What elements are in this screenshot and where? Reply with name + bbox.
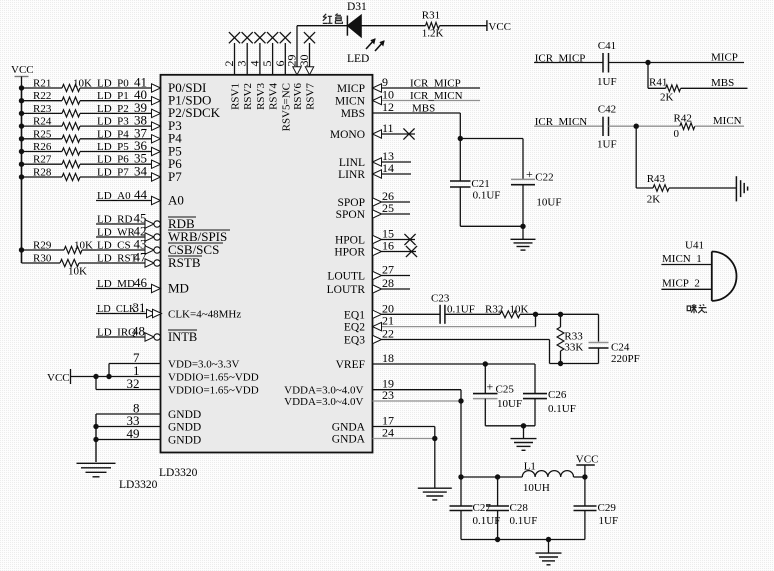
svg-text:ICR_MICN: ICR_MICN <box>410 90 463 102</box>
node junction C21 top <box>458 136 463 141</box>
wire RSV pin 5 <box>272 43 274 75</box>
node junction EQ1-R33 top <box>558 312 563 317</box>
svg-text:EQ2: EQ2 <box>344 322 365 334</box>
label LED <box>347 53 369 65</box>
svg-text:21: 21 <box>382 314 394 328</box>
resistor R25 10K <box>33 128 80 142</box>
pin 45 arrow and active-low bubble <box>145 220 160 228</box>
svg-text:SPON: SPON <box>336 209 366 221</box>
svg-text:LD_CS: LD_CS <box>97 240 131 252</box>
wire LD_WR to chip <box>96 236 145 238</box>
svg-text:28: 28 <box>382 276 394 290</box>
svg-text:C27: C27 <box>473 502 492 514</box>
pin 17 number <box>382 414 394 428</box>
pin 41 input arrow <box>152 84 161 92</box>
svg-text:10K: 10K <box>73 78 92 90</box>
node junction rail-C27 <box>458 474 463 479</box>
svg-text:C24: C24 <box>611 342 630 354</box>
pin 35 number <box>134 151 147 166</box>
power VCC port (top left) <box>11 64 34 88</box>
pin 44 input arrow <box>152 196 161 204</box>
svg-text:VCC: VCC <box>47 372 70 384</box>
svg-text:RSV7: RSV7 <box>305 83 317 110</box>
svg-text:46: 46 <box>134 275 148 290</box>
pin 34 input arrow <box>152 173 161 181</box>
capacitor C23 0.1UF <box>431 293 475 324</box>
capacitor C21 0.1UF <box>450 178 500 202</box>
wire C25 upper lead <box>484 364 486 394</box>
svg-text:+: + <box>487 380 494 394</box>
svg-text:MD: MD <box>168 280 189 295</box>
pin 28 output arrow <box>373 285 382 293</box>
wire R31 to VCC <box>440 25 487 27</box>
ground symbol below C25 C26 <box>511 439 537 451</box>
pin 29 number (rotated) <box>285 55 299 67</box>
svg-text:LD_P1: LD_P1 <box>97 90 129 102</box>
svg-text:U41: U41 <box>685 239 704 251</box>
net label LD_MD <box>97 278 135 290</box>
pin 21 EQ2 wire <box>382 314 536 326</box>
svg-text:VDDIO=1.65~VDD: VDDIO=1.65~VDD <box>168 385 259 397</box>
svg-text:LD_P7: LD_P7 <box>97 167 129 179</box>
wire RSV pin 4 <box>259 43 261 75</box>
node junction R25 at bus <box>19 136 24 141</box>
wire L1 to VCC node <box>574 476 585 478</box>
wire filter bottom rail <box>461 539 585 541</box>
node junction R27 at bus <box>19 162 24 167</box>
pin 46 input arrow <box>152 284 161 292</box>
svg-text:49: 49 <box>127 426 140 441</box>
svg-text:34: 34 <box>134 164 148 179</box>
wire LD_MD to chip pin 46 <box>96 288 152 290</box>
svg-text:L1: L1 <box>524 461 536 473</box>
capacitor C41 1UF <box>597 40 617 88</box>
svg-text:RSV3: RSV3 <box>255 83 267 110</box>
pin 22 output arrow <box>373 335 382 343</box>
ground symbol rotated (right) <box>736 176 747 201</box>
svg-text:10K: 10K <box>68 266 87 278</box>
wire LD_RST to chip <box>96 262 145 264</box>
net label LD_P0 <box>97 78 129 90</box>
pin 39 number <box>134 100 147 115</box>
wire RSV pin 3 <box>246 43 248 75</box>
svg-text:R32: R32 <box>485 304 503 316</box>
svg-text:VDD=3.0~3.3V: VDD=3.0~3.3V <box>168 359 239 371</box>
resistor R41 2K <box>648 77 681 104</box>
pin 6 number (rotated) <box>273 61 287 67</box>
resistor R26 10K <box>33 141 80 155</box>
capacitor C22 10UF (electrolytic) <box>511 167 561 209</box>
pin 29 top arrow <box>293 67 301 75</box>
wire branch up to pin 7 <box>109 364 161 377</box>
node junction R28 at bus <box>19 174 24 179</box>
pin 26 output arrow <box>373 198 382 206</box>
pin 30 number (rotated) <box>297 55 311 67</box>
wire R21 to chip pin 41 <box>80 87 152 89</box>
wire MICP to mic pin 2 <box>661 288 711 290</box>
pin 25 output arrow <box>373 210 382 218</box>
svg-text:LD_RD: LD_RD <box>97 214 133 226</box>
svg-text:C41: C41 <box>598 40 616 52</box>
pin 43 number <box>134 237 147 252</box>
svg-text:GNDD: GNDD <box>168 422 201 434</box>
node junction bottom-ground <box>546 537 551 542</box>
svg-text:10UF: 10UF <box>497 398 522 410</box>
svg-text:RSV1: RSV1 <box>230 83 242 110</box>
chip right pin names <box>284 83 366 446</box>
pin 34 number <box>134 164 148 179</box>
svg-text:VCC: VCC <box>576 454 599 466</box>
svg-text:R27: R27 <box>33 154 52 166</box>
node junction GNDA <box>432 436 437 441</box>
svg-text:LD_P4: LD_P4 <box>97 128 129 140</box>
svg-text:12: 12 <box>382 100 394 114</box>
node junction R22 at bus <box>19 98 24 103</box>
pin 35 input arrow <box>152 160 161 168</box>
pin 37 number <box>134 125 148 140</box>
svg-text:R22: R22 <box>33 90 51 102</box>
net label LD_RD <box>97 214 133 226</box>
pin 23 number <box>382 388 394 402</box>
no-connect X pin 30 <box>304 32 315 43</box>
resistor R43 2K <box>636 173 669 205</box>
svg-text:LD_IRQ: LD_IRQ <box>97 327 136 339</box>
node junction R26 at bus <box>19 149 24 154</box>
wire R32 to EQ1 node <box>520 313 599 315</box>
no-connect X pin 6 <box>280 32 291 43</box>
resistor R21 10K <box>33 78 80 92</box>
wire R26 to chip pin 36 <box>80 151 152 153</box>
wire R22 to chip pin 40 <box>80 100 152 102</box>
svg-text:P7: P7 <box>168 169 182 184</box>
svg-text:C26: C26 <box>548 389 567 401</box>
capacitor C24 220PF <box>589 314 640 365</box>
svg-text:31: 31 <box>133 300 146 315</box>
pin 36 number <box>134 138 148 153</box>
wire R24 to chip pin 38 <box>80 125 152 127</box>
no-connect X pin 11 <box>403 128 414 139</box>
pin 10 number <box>382 88 394 102</box>
svg-text:GNDD: GNDD <box>168 409 201 421</box>
svg-text:MICP 2: MICP 2 <box>662 278 700 290</box>
pin 21 input arrow <box>373 322 382 330</box>
net label MICN pin 1 <box>662 253 702 265</box>
wire bus to R22 <box>22 100 63 102</box>
pin 14 number <box>382 161 394 175</box>
wire filter top rail left <box>461 476 522 478</box>
svg-text:MONO: MONO <box>330 129 365 141</box>
pin 16 number <box>382 239 394 253</box>
svg-text:+: + <box>526 167 533 181</box>
svg-text:R24: R24 <box>33 116 52 128</box>
wire VCC bus vertical <box>21 88 23 263</box>
pin 45 number <box>134 211 147 226</box>
svg-text:MBS: MBS <box>341 108 365 120</box>
no-connect X pin 2 <box>229 32 240 43</box>
ground symbol filter <box>536 553 562 565</box>
pin 10 MICN wire <box>382 100 481 102</box>
svg-text:44: 44 <box>134 187 148 202</box>
chip left pin names <box>168 80 259 447</box>
wire C21 upper lead <box>459 139 461 182</box>
wire C22 lower lead <box>522 185 524 227</box>
node junction R23 at bus <box>19 111 24 116</box>
power VCC port (left, VDD pins) <box>47 369 96 384</box>
pin 21 number <box>382 314 394 328</box>
svg-text:EQ1: EQ1 <box>344 309 365 321</box>
part label U41 <box>685 239 704 251</box>
pin 16 HPOR wire <box>382 251 417 253</box>
wire C25 bottom to C26 bottom <box>485 425 535 427</box>
node junction MICP-R41 <box>645 60 650 65</box>
wire R41 to MBS <box>681 87 748 89</box>
wire C23 to R32 <box>445 313 500 315</box>
svg-text:VREF: VREF <box>336 359 365 371</box>
node junction R33 bottom <box>558 361 563 366</box>
pin 28 LOUTR wire <box>382 288 411 290</box>
wire LD_CS to chip <box>96 249 145 251</box>
pin 47 arrow and active-low bubble <box>145 259 160 267</box>
svg-text:VDDIO=1.65~VDD: VDDIO=1.65~VDD <box>168 372 259 384</box>
part label LD3320 (outer) <box>119 479 158 491</box>
pin 13 LINL wire <box>382 161 412 163</box>
svg-text:10UF: 10UF <box>536 197 561 209</box>
svg-text:C22: C22 <box>535 172 553 184</box>
label mic (Chinese mitou) <box>687 304 707 313</box>
svg-text:RSV2: RSV2 <box>242 83 254 110</box>
part label LD3320 (inner) <box>159 467 198 479</box>
svg-text:HPOL: HPOL <box>335 235 365 247</box>
pin 46 number <box>134 275 148 290</box>
svg-text:R30: R30 <box>33 253 52 265</box>
node junction rail-C29 <box>582 474 587 479</box>
net label LD_WR <box>97 227 136 239</box>
pin 15 number <box>382 227 394 241</box>
pin 40 number <box>134 87 147 102</box>
wire C21 lower lead <box>459 187 461 226</box>
svg-text:ICR_MICP: ICR_MICP <box>410 78 461 90</box>
svg-text:MICN: MICN <box>335 96 366 108</box>
wire bus to R29 <box>22 249 65 251</box>
pin 49 number <box>127 426 140 441</box>
net label ICR_MICN <box>535 116 588 128</box>
pin 5 number (rotated) <box>260 61 274 67</box>
resistor R32 10K <box>485 304 529 318</box>
pin 14 LINR wire <box>382 173 412 175</box>
svg-text:32: 32 <box>127 376 140 391</box>
wire pin 8 ground <box>96 413 161 415</box>
net label LD_CS <box>97 240 131 252</box>
svg-text:SPOP: SPOP <box>338 197 366 209</box>
pin 19 VDDA wire <box>373 390 462 401</box>
LED D31 symbol <box>347 15 384 51</box>
svg-text:22: 22 <box>382 327 394 341</box>
node junction R21 at bus <box>19 85 24 90</box>
svg-text:LD_CLK: LD_CLK <box>97 304 137 315</box>
svg-text:48: 48 <box>132 324 145 339</box>
svg-text:0.1UF: 0.1UF <box>510 515 538 527</box>
wire EQ3 down <box>549 340 551 364</box>
svg-text:LOUTL: LOUTL <box>327 271 365 283</box>
pin 43 arrow and active-low bubble <box>145 246 160 254</box>
pin 25 number <box>382 201 394 215</box>
pin 22 number <box>382 327 394 341</box>
pin 23 VDDA wire <box>373 400 462 402</box>
wire to ground stub <box>522 226 524 239</box>
pin 33 number <box>127 413 140 428</box>
wire C42 to R42 <box>609 125 680 127</box>
wire R28 to chip pin 34 <box>80 176 152 178</box>
resistor R27 10K <box>33 154 80 168</box>
power VCC port (top) <box>487 20 511 33</box>
svg-text:27: 27 <box>382 263 394 277</box>
wire GNDA ground stub <box>434 439 436 489</box>
svg-text:11: 11 <box>382 121 394 135</box>
pin 18 number <box>382 351 394 365</box>
pin 16 output arrow <box>373 247 382 255</box>
pin 20 number <box>382 301 394 315</box>
chip left active-low pin names (overlined) <box>168 216 230 344</box>
svg-text:LD_P2: LD_P2 <box>97 103 129 115</box>
svg-text:MICN: MICN <box>713 115 742 127</box>
wire LD_A0 to chip pin 44 <box>96 200 152 202</box>
svg-text:LINR: LINR <box>338 169 365 181</box>
svg-text:R43: R43 <box>647 173 666 185</box>
no-connect X pin 16 <box>406 246 417 257</box>
svg-text:2K: 2K <box>660 92 674 104</box>
svg-text:R42: R42 <box>674 112 692 124</box>
no-connect X pin 4 <box>254 32 265 43</box>
svg-text:LD_WR: LD_WR <box>97 227 136 239</box>
svg-text:0.1UF: 0.1UF <box>473 515 501 527</box>
pin 19 number <box>382 377 394 391</box>
svg-text:LD_RST: LD_RST <box>97 253 138 265</box>
no-connect X pin 5 <box>267 32 278 43</box>
pin 14 input arrow <box>373 170 382 178</box>
no-connect X pin 3 <box>242 32 253 43</box>
pin 9 MICP wire <box>382 87 481 89</box>
net label LD_IRQ <box>97 327 136 339</box>
svg-text:LD_P3: LD_P3 <box>97 116 129 128</box>
IC U-LD3320 chip body <box>161 75 373 453</box>
svg-text:VDDA=3.0~4.0V: VDDA=3.0~4.0V <box>284 385 363 397</box>
pin 48 arrow and active-low bubble <box>145 333 160 341</box>
pin 39 input arrow <box>152 109 161 117</box>
svg-text:LD_P0: LD_P0 <box>97 78 129 90</box>
pin 28 number <box>382 276 394 290</box>
svg-text:2K: 2K <box>647 193 661 205</box>
net label LD_P6 <box>97 154 129 166</box>
resistor R31 1.2K <box>422 10 444 40</box>
wire VCC to pin 1 <box>96 376 161 378</box>
svg-text:25: 25 <box>382 201 394 215</box>
wire R43 drop <box>635 126 637 188</box>
node junction GNDD 33 <box>93 424 98 429</box>
svg-text:0.1UF: 0.1UF <box>548 403 576 415</box>
wire pin 33 ground <box>96 426 161 428</box>
wire C41 to MICP <box>609 62 745 64</box>
net label LD_P5 <box>97 141 129 153</box>
pin 22 EQ3 wire <box>382 339 550 341</box>
svg-text:16: 16 <box>382 239 394 253</box>
pin 42 number <box>134 224 147 239</box>
pin 32 number <box>127 376 140 391</box>
capacitor C26 0.1UF <box>523 389 576 415</box>
svg-text:C25: C25 <box>496 384 515 396</box>
svg-text:MICN 1: MICN 1 <box>662 253 702 265</box>
svg-text:RSV6: RSV6 <box>292 83 304 110</box>
net label LD_P4 <box>97 128 129 140</box>
pin 20 EQ1 wire <box>382 313 441 315</box>
wire EQ3 to R33 bottom <box>550 363 599 365</box>
pin 31 clock double arrow <box>147 309 162 317</box>
pin 2 number (rotated) <box>222 61 236 67</box>
svg-text:LED: LED <box>347 53 369 65</box>
pin 12 number <box>382 100 394 114</box>
pin 40 input arrow <box>152 97 161 105</box>
svg-text:LD_P6: LD_P6 <box>97 154 129 166</box>
svg-text:LD_MD: LD_MD <box>97 278 135 290</box>
net label ICR_MICP <box>535 53 586 65</box>
capacitor C27 0.1UF <box>450 477 501 540</box>
svg-text:1.2K: 1.2K <box>422 28 444 40</box>
wire RSV pin 2 <box>234 43 236 75</box>
node junction C22 bottom <box>520 224 525 229</box>
pin 31 number <box>133 300 146 315</box>
svg-text:0: 0 <box>674 128 680 140</box>
pin 20 output arrow <box>373 310 382 318</box>
wire pin 49 ground <box>96 439 161 441</box>
svg-text:C42: C42 <box>598 104 616 116</box>
svg-text:INTB: INTB <box>168 330 197 344</box>
wire ICR_MICP to C41 <box>534 62 603 64</box>
svg-text:R21: R21 <box>33 78 51 90</box>
svg-text:LINL: LINL <box>339 157 365 169</box>
resistor R30 10K <box>33 253 87 278</box>
wire R23 to chip pin 39 <box>80 112 152 114</box>
svg-text:LOUTR: LOUTR <box>327 284 366 296</box>
svg-text:LD3320: LD3320 <box>119 479 158 491</box>
inductor L1 10UH <box>522 461 573 495</box>
pin 44 number <box>134 187 148 202</box>
resistor R33 33K <box>557 314 583 363</box>
svg-text:RSV4: RSV4 <box>268 83 280 110</box>
svg-text:R28: R28 <box>33 167 52 179</box>
wire R30 to LD_RST <box>79 262 96 264</box>
chip top RSV pin names (rotated) <box>230 83 317 132</box>
pin 41 number <box>134 75 147 90</box>
svg-text:18: 18 <box>382 351 394 365</box>
svg-text:VCC: VCC <box>11 64 34 76</box>
pin 8 number <box>133 401 140 416</box>
node junction GNDD 49 <box>93 437 98 442</box>
net label MBS (chip side) <box>412 103 435 115</box>
pin 27 output arrow <box>373 271 382 279</box>
net label LD_CLK <box>97 304 137 315</box>
resistor R24 10K <box>33 116 80 130</box>
pin 38 input arrow <box>152 122 161 130</box>
net label MICP pin 2 <box>662 278 700 290</box>
wire R25 to chip pin 37 <box>80 138 152 140</box>
svg-text:MBS: MBS <box>412 103 435 115</box>
wire ground stub <box>523 426 525 439</box>
pin 3 number (rotated) <box>235 61 249 67</box>
wire R29 to LD_CS <box>82 249 96 251</box>
pin 26 SPOP wire <box>382 201 411 203</box>
wire RSV pin 6 <box>284 43 286 75</box>
wire LD_IRQ to chip pin 48 <box>96 336 145 338</box>
net label MBS <box>711 77 734 89</box>
